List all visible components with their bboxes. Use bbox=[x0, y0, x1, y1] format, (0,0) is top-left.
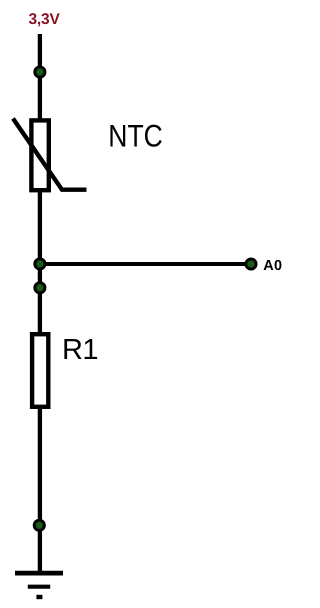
svg-text:R1: R1 bbox=[62, 334, 98, 366]
wire main vertical bbox=[38, 34, 42, 571]
node junction dot bbox=[35, 259, 45, 269]
node 3,3V pin dot bbox=[35, 67, 45, 77]
svg-text:3,3V: 3,3V bbox=[29, 11, 61, 28]
resistor R1 body bbox=[32, 334, 48, 407]
svg-text:NTC: NTC bbox=[108, 118, 163, 153]
svg-text:A0: A0 bbox=[263, 258, 282, 274]
node ground pin dot bbox=[34, 520, 44, 530]
wire A0 horizontal bbox=[40, 262, 250, 266]
ground bar 3 bbox=[36, 595, 42, 599]
thermistor NTC body bbox=[31, 120, 48, 190]
thermistor NTC diagonal stroke bbox=[13, 119, 87, 190]
node R1 top pin dot bbox=[35, 283, 45, 293]
ground bar 2 bbox=[28, 585, 50, 589]
node A0 pin dot bbox=[246, 259, 256, 269]
ground bar 1 bbox=[15, 571, 63, 576]
